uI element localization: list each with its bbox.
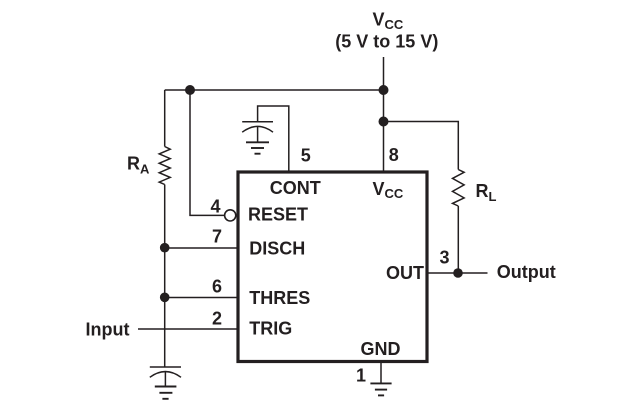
svg-text:DISCH: DISCH xyxy=(249,238,305,258)
wire GND pin 1 xyxy=(380,363,382,383)
power VCC label xyxy=(335,10,438,52)
svg-text:4: 4 xyxy=(211,197,221,217)
svg-text:THRES: THRES xyxy=(249,288,310,308)
wire RA bottom to input capacitor xyxy=(164,185,166,368)
svg-text:8: 8 xyxy=(389,145,399,165)
svg-text:TRIG: TRIG xyxy=(249,319,292,339)
svg-text:Input: Input xyxy=(86,319,130,339)
svg-text:V: V xyxy=(373,179,385,199)
IC U1 555 timer body xyxy=(238,172,427,362)
svg-text:R: R xyxy=(476,181,489,201)
wire DISCH xyxy=(165,247,237,249)
node VCC rail junction xyxy=(379,85,389,95)
wire reset branch to pin 4 xyxy=(190,90,225,215)
svg-text:2: 2 xyxy=(212,309,222,329)
wire OUT to Output xyxy=(429,272,488,274)
svg-text:CC: CC xyxy=(385,186,404,201)
svg-text:CONT: CONT xyxy=(270,178,321,198)
ground (CONT bypass capacitor) xyxy=(246,142,269,153)
capacitor (input, lower left) xyxy=(150,367,181,386)
pin 4 RESET bubble xyxy=(225,210,236,221)
wire VCC supply down to pin 8 xyxy=(383,57,385,171)
wire TRIG from Input xyxy=(138,328,237,330)
svg-text:L: L xyxy=(489,189,497,204)
svg-text:GND: GND xyxy=(361,339,401,359)
wire CONT capacitor to pin 5 xyxy=(258,106,289,171)
svg-text:(5 V to 15 V): (5 V to 15 V) xyxy=(335,32,438,52)
node DISCH junction xyxy=(160,243,170,253)
node RL branch junction xyxy=(379,117,389,127)
wire RL branch from VCC rail xyxy=(384,122,459,170)
svg-text:A: A xyxy=(140,162,150,177)
wire THRES xyxy=(165,297,237,299)
svg-text:6: 6 xyxy=(212,276,222,296)
svg-text:OUT: OUT xyxy=(386,263,424,283)
svg-text:1: 1 xyxy=(356,366,366,386)
svg-text:5: 5 xyxy=(301,146,311,166)
label RA xyxy=(127,154,150,177)
node OUT junction xyxy=(453,268,463,278)
pin label VCC (pin 8) xyxy=(373,179,404,201)
svg-text:CC: CC xyxy=(385,17,404,32)
resistor RA xyxy=(159,90,170,185)
svg-text:3: 3 xyxy=(440,247,450,267)
node THRES junction xyxy=(160,293,170,303)
wire top rail (RA top to VCC) xyxy=(165,89,384,91)
capacitor (CONT bypass) xyxy=(242,122,273,142)
svg-text:R: R xyxy=(127,154,140,174)
svg-text:7: 7 xyxy=(212,227,222,247)
label RL xyxy=(476,181,497,204)
resistor RL xyxy=(453,170,465,207)
svg-text:RESET: RESET xyxy=(248,204,308,224)
svg-text:V: V xyxy=(373,10,385,30)
ground (input capacitor) xyxy=(155,387,177,399)
node RA/reset branch junction xyxy=(185,85,195,95)
svg-text:Output: Output xyxy=(497,262,556,282)
wire RL bottom to OUT node xyxy=(457,206,459,273)
ground (GND pin 1) xyxy=(370,383,391,395)
